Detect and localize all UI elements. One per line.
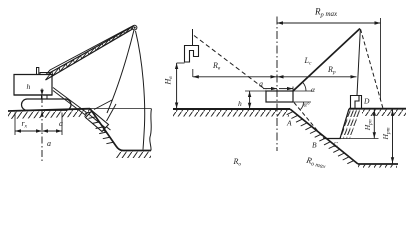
svg-text:a: a (59, 119, 63, 128)
svg-text:Hв: Hв (164, 76, 175, 86)
svg-text:Rp: Rp (327, 65, 336, 76)
svg-text:h: h (238, 99, 242, 108)
svg-text:Lc: Lc (304, 56, 312, 67)
svg-text:A: A (286, 119, 292, 128)
svg-text:Hpn: Hpn (363, 119, 374, 131)
svg-text:Rв: Rв (212, 61, 221, 72)
svg-text:Rp max: Rp max (314, 7, 338, 19)
svg-text:rx: rx (22, 119, 28, 130)
svg-text:h: h (27, 82, 31, 91)
svg-text:Hpт: Hpт (381, 127, 392, 140)
svg-text:Ro max: Ro max (304, 155, 327, 168)
svg-text:B: B (312, 141, 317, 150)
svg-text:a: a (47, 139, 51, 148)
svg-text:Ro: Ro (233, 157, 242, 168)
svg-text:α°: α° (304, 102, 310, 109)
svg-text:α: α (311, 85, 316, 94)
svg-text:a: a (259, 80, 263, 89)
svg-text:D: D (363, 97, 370, 106)
